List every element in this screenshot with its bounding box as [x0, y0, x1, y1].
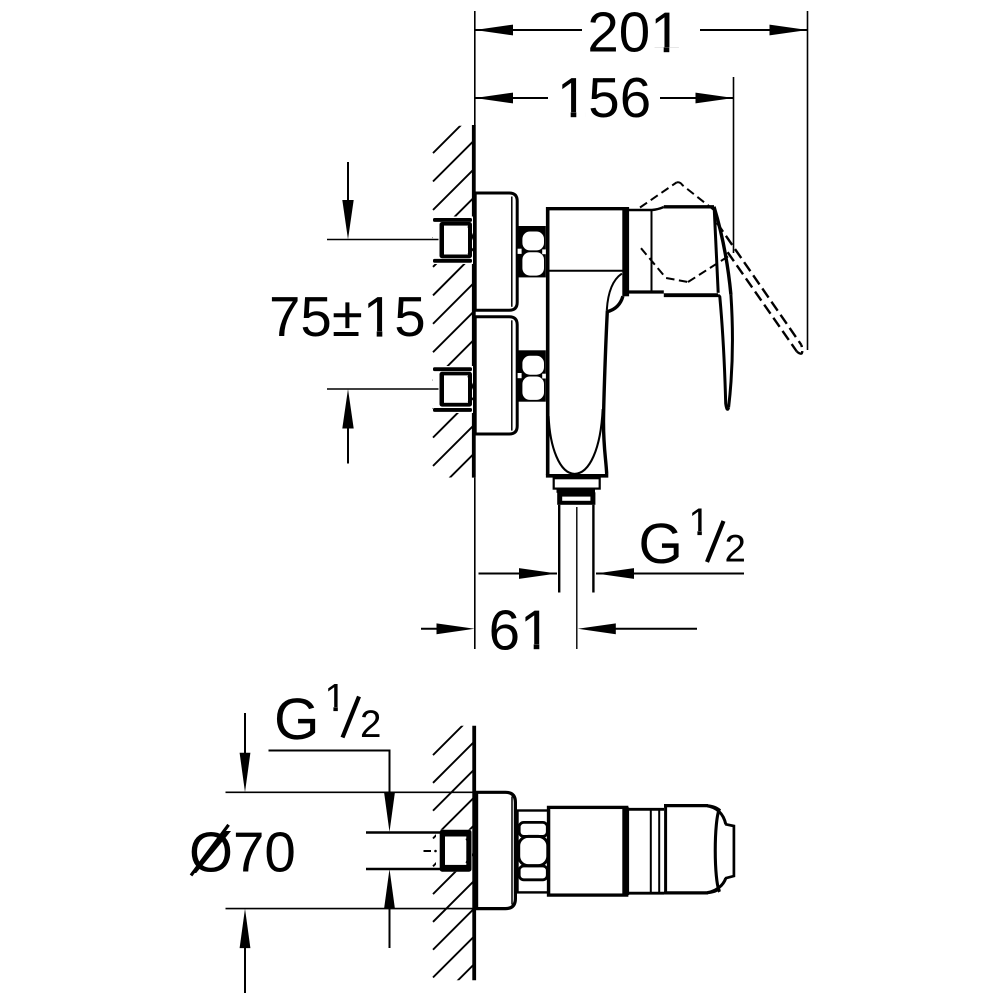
dimension diameter 70 [189, 713, 296, 993]
wall hatching (upper drawing) [433, 113, 474, 523]
svg-text:G: G [639, 512, 683, 576]
svg-text:G: G [274, 687, 320, 752]
spout inner outlet curve [549, 409, 603, 474]
upper supply pipe centreline tick [327, 239, 439, 241]
wall hatching (lower drawing) [433, 715, 474, 1000]
outlet seal band [557, 489, 596, 493]
svg-text:75±15: 75±15 [269, 285, 426, 348]
spout right edge [603, 296, 622, 474]
valve body cylinder (lower drawing) [549, 807, 627, 895]
lower union square body [440, 372, 473, 407]
svg-text:61: 61 [489, 598, 552, 661]
handle front tab [725, 824, 734, 878]
lower union nut [518, 350, 547, 401]
dimension G 1/2 (hose thread, upper drawing) [479, 501, 746, 579]
svg-text:Ø70: Ø70 [189, 821, 296, 884]
upper escutcheon flange [475, 193, 517, 310]
wall extension line above (dimension datum) [474, 11, 476, 126]
outlet collar [554, 478, 600, 488]
svg-text:2: 2 [360, 703, 381, 746]
handle base [664, 205, 714, 208]
dimension 201 [475, 1, 808, 351]
mixer body box top edge [546, 207, 623, 210]
handle cap dome (end view) [706, 806, 734, 893]
dimension 75 plus/minus 15 [269, 162, 426, 464]
svg-text:201: 201 [587, 1, 681, 64]
cartridge cap [629, 207, 664, 210]
digit style corrections [326, 47, 709, 712]
wall face line (upper drawing) [472, 125, 476, 478]
mixer body left edge [546, 207, 550, 475]
diameter symbol slash emphasis [191, 825, 229, 876]
cartridge joint thick band [622, 207, 629, 296]
dimension 156 [475, 66, 734, 253]
svg-text:1: 1 [689, 501, 710, 544]
upper union square body [440, 222, 473, 258]
dimension G 1/2 (supply thread, lower drawing) [269, 677, 395, 949]
shower hose [558, 505, 560, 593]
svg-text:156: 156 [557, 66, 651, 129]
svg-text:1: 1 [325, 677, 346, 720]
lower supply pipe centreline tick [327, 388, 439, 390]
pipe union square (lower drawing) [440, 830, 472, 872]
cartridge cap (lower drawing) [629, 808, 664, 811]
escutcheon flange (lower drawing) [477, 792, 516, 908]
wall extension line below (61 datum) [474, 478, 476, 649]
mixer body box bottom edge [549, 270, 623, 272]
wall face line (lower drawing) [472, 726, 476, 981]
dimension 61 [421, 598, 697, 661]
dashed handle lever (rotated position) [717, 223, 802, 354]
lower union cone seat [468, 376, 474, 390]
lower escutcheon flange [475, 317, 517, 434]
dashed handle base (rotated position) [640, 182, 728, 282]
svg-text:2: 2 [725, 528, 746, 571]
upper union seal bands [433, 218, 472, 222]
handle lever blade [729, 295, 733, 408]
handle base (lower drawing) [664, 804, 708, 807]
cartridge joint thick band (lower drawing) [622, 807, 629, 895]
upper union nut [518, 226, 547, 277]
supply pipe (lower drawing) [436, 830, 472, 872]
hose centreline extension [576, 507, 578, 649]
union nut (lower drawing) [518, 811, 550, 893]
hose nut [557, 492, 595, 505]
upper union cone seat [468, 226, 474, 240]
supply pipe centreline dash-dot [424, 850, 432, 852]
spout inner elbow curve [607, 274, 622, 310]
lower union seal bands [433, 367, 472, 371]
spout bottom edge [546, 474, 608, 478]
diameter 70 extension lines [226, 791, 477, 793]
handle cap dome edge arc [715, 809, 719, 892]
